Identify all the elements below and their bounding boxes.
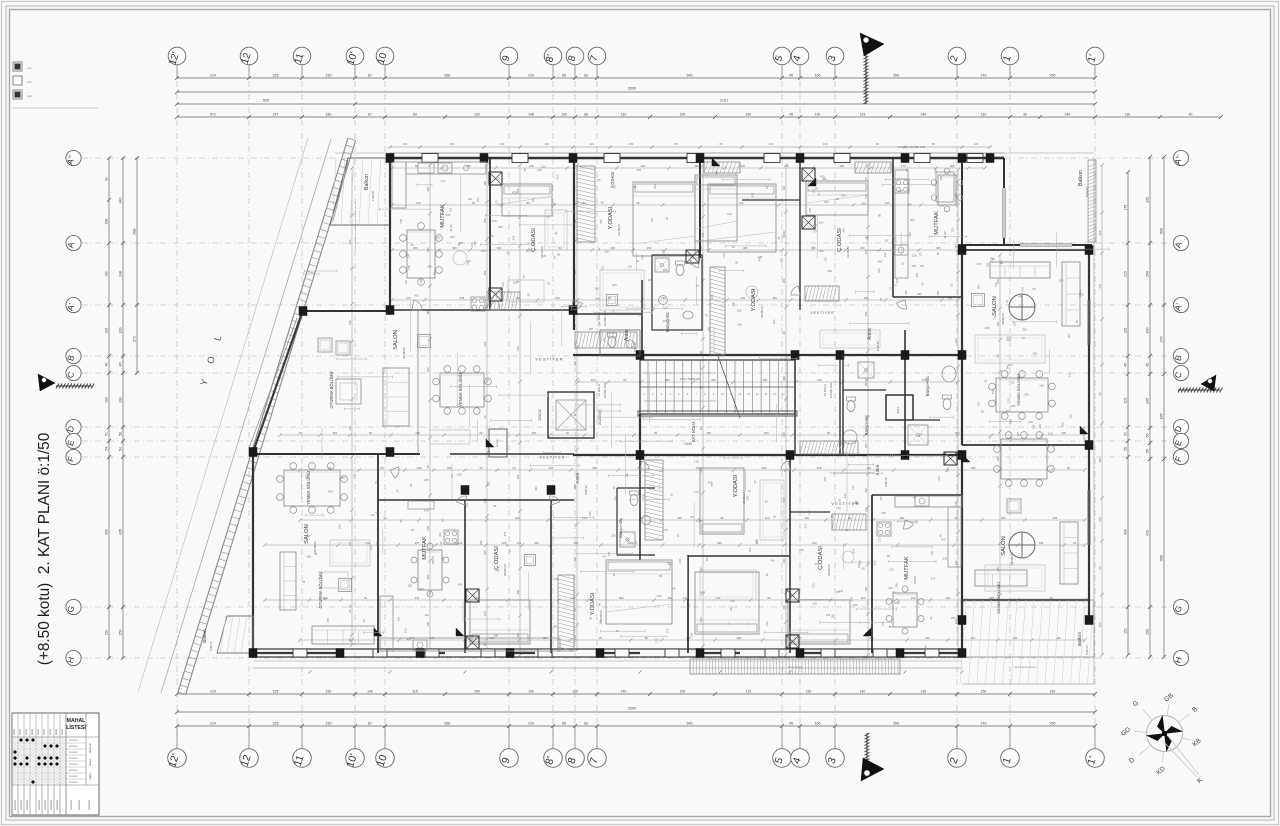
svg-text:SALON: SALON (992, 296, 998, 316)
svg-text:DAİRE GİR.: DAİRE GİR. (602, 310, 607, 326)
svg-text:130: 130 (544, 142, 549, 146)
svg-text:205: 205 (483, 550, 487, 555)
svg-text:425: 425 (898, 189, 903, 193)
svg-text:150: 150 (799, 548, 804, 552)
svg-text:180: 180 (1039, 541, 1044, 545)
svg-text:17x17.54/28.(25): 17x17.54/28.(25) (679, 377, 700, 381)
svg-text:90: 90 (721, 516, 725, 520)
svg-text:140: 140 (1039, 384, 1044, 388)
svg-text:150: 150 (762, 378, 767, 382)
svg-text:mmm: mmm (61, 729, 64, 735)
svg-text:90: 90 (105, 177, 109, 181)
svg-text:7.80 m²: 7.80 m² (633, 342, 637, 352)
svg-text:mmm: mmm (37, 729, 40, 735)
svg-text:230: 230 (407, 265, 411, 270)
svg-text:130: 130 (464, 502, 468, 507)
svg-text:65: 65 (879, 297, 883, 301)
svg-text:60: 60 (1189, 113, 1193, 117)
svg-text:270: 270 (406, 296, 411, 300)
svg-text:425: 425 (750, 192, 754, 197)
svg-text:25: 25 (636, 201, 640, 205)
svg-text:Y.ODASI: Y.ODASI (733, 474, 739, 497)
svg-text:duvar: duvar (88, 758, 92, 765)
svg-text:430: 430 (954, 560, 958, 565)
svg-text:Y.ODASI: Y.ODASI (751, 288, 757, 311)
svg-text:40: 40 (411, 243, 415, 247)
svg-text:430: 430 (711, 378, 716, 382)
svg-text:18.80 m²: 18.80 m² (1001, 313, 1005, 325)
svg-text:190: 190 (1011, 404, 1016, 408)
svg-text:45: 45 (119, 363, 123, 367)
svg-text:490: 490 (714, 170, 718, 175)
svg-text:460: 460 (419, 587, 424, 591)
svg-text:330: 330 (864, 488, 868, 493)
svg-text:13.78 m²: 13.78 m² (617, 224, 621, 236)
svg-text:mm: mm (27, 66, 32, 70)
svg-text:230: 230 (860, 246, 865, 250)
svg-text:405: 405 (1067, 333, 1071, 338)
svg-text:140: 140 (621, 690, 627, 694)
svg-text:460: 460 (652, 306, 656, 311)
svg-text:97: 97 (506, 543, 510, 547)
svg-text:460: 460 (910, 218, 915, 222)
svg-text:300: 300 (447, 466, 452, 470)
svg-text:180: 180 (483, 181, 487, 186)
svg-text:250: 250 (864, 443, 868, 448)
svg-text:160: 160 (819, 220, 824, 224)
svg-text:55: 55 (1146, 449, 1150, 453)
svg-text:150: 150 (629, 142, 634, 146)
svg-text:405: 405 (1033, 351, 1038, 355)
svg-text:205: 205 (941, 537, 946, 541)
svg-text:270: 270 (499, 183, 503, 188)
svg-text:85: 85 (493, 504, 497, 508)
svg-text:149: 149 (981, 722, 987, 726)
svg-text:425: 425 (414, 293, 419, 297)
svg-text:50: 50 (845, 528, 849, 532)
svg-text:mmm: mmm (19, 729, 22, 735)
svg-text:65: 65 (691, 515, 695, 519)
svg-text:150: 150 (804, 516, 809, 520)
svg-text:340: 340 (119, 198, 123, 204)
svg-text:405: 405 (861, 596, 866, 600)
svg-text:85: 85 (409, 483, 413, 487)
svg-text:40: 40 (603, 555, 607, 559)
svg-text:425: 425 (1008, 363, 1013, 367)
svg-text:435: 435 (424, 478, 429, 482)
svg-text:425: 425 (1081, 426, 1086, 430)
svg-text:460: 460 (1001, 516, 1006, 520)
svg-text:272: 272 (133, 336, 137, 342)
svg-text:Balkon: Balkon (1078, 170, 1084, 186)
svg-text:90: 90 (512, 466, 516, 470)
svg-text:270: 270 (1098, 517, 1102, 522)
svg-text:205: 205 (737, 636, 742, 640)
svg-text:270: 270 (889, 286, 894, 290)
svg-text:65: 65 (612, 486, 616, 490)
svg-text:435: 435 (985, 326, 990, 330)
svg-text:mmmmm: mmmmm (88, 800, 91, 810)
svg-text:205: 205 (653, 184, 657, 189)
svg-text:460: 460 (531, 240, 535, 245)
svg-text:120: 120 (974, 142, 979, 146)
svg-text:230: 230 (781, 235, 786, 239)
svg-text:40: 40 (929, 616, 933, 620)
svg-text:173: 173 (494, 200, 498, 205)
svg-text:350: 350 (748, 547, 752, 552)
svg-text:50: 50 (687, 604, 691, 608)
svg-text:50: 50 (527, 293, 531, 297)
svg-text:130: 130 (812, 541, 817, 545)
svg-text:DAİRE GİR.: DAİRE GİR. (602, 382, 607, 398)
svg-text:mmmmm: mmmmm (78, 800, 81, 810)
svg-text:25: 25 (1098, 566, 1102, 570)
svg-text:173: 173 (931, 577, 936, 581)
svg-text:DUMAN: DUMAN (496, 439, 499, 447)
svg-text:149: 149 (981, 74, 987, 78)
svg-text:63: 63 (584, 74, 588, 78)
svg-text:65: 65 (675, 142, 678, 146)
svg-text:40: 40 (362, 619, 366, 623)
svg-text:330: 330 (534, 541, 539, 545)
svg-text:290: 290 (864, 507, 868, 512)
svg-text:5.55 m²: 5.55 m² (209, 641, 213, 651)
svg-text:250: 250 (864, 311, 868, 316)
svg-text:173: 173 (919, 252, 923, 257)
svg-text:SALON: SALON (393, 330, 399, 350)
svg-text:572: 572 (210, 113, 216, 117)
svg-text:250: 250 (1146, 271, 1150, 277)
svg-text:250: 250 (326, 618, 330, 623)
svg-text:130: 130 (403, 142, 408, 146)
svg-text:25: 25 (396, 489, 400, 493)
svg-text:205: 205 (426, 186, 430, 191)
svg-text:320: 320 (689, 260, 693, 265)
svg-text:100: 100 (119, 328, 123, 334)
svg-text:25: 25 (669, 493, 673, 497)
svg-text:130: 130 (782, 432, 786, 437)
svg-text:120: 120 (426, 621, 430, 626)
svg-text:110: 110 (879, 496, 883, 501)
svg-text:130: 130 (782, 558, 786, 563)
svg-text:97: 97 (665, 216, 669, 220)
svg-text:25: 25 (753, 480, 757, 484)
svg-text:230: 230 (729, 606, 733, 611)
svg-text:290: 290 (1024, 392, 1029, 396)
svg-text:50: 50 (1146, 434, 1150, 438)
svg-text:25: 25 (459, 541, 463, 545)
svg-text:14.55 m²: 14.55 m² (760, 306, 764, 318)
svg-text:80: 80 (557, 253, 561, 257)
svg-text:V E S T İ Y E R: V E S T İ Y E R (540, 455, 565, 460)
svg-text:250: 250 (977, 401, 981, 406)
svg-text:25: 25 (472, 201, 476, 205)
svg-text:320: 320 (554, 577, 559, 581)
svg-text:25: 25 (984, 379, 988, 383)
svg-text:250: 250 (483, 218, 487, 223)
svg-text:153: 153 (273, 722, 279, 726)
svg-text:60: 60 (988, 435, 992, 439)
svg-text:173: 173 (694, 490, 699, 494)
svg-text:50: 50 (119, 432, 123, 436)
svg-text:mmmmm: mmmmm (20, 800, 23, 810)
svg-text:230: 230 (930, 550, 934, 555)
svg-text:405: 405 (743, 246, 748, 250)
svg-text:350: 350 (986, 262, 990, 267)
svg-text:435: 435 (1021, 286, 1025, 291)
svg-text:290: 290 (494, 633, 499, 637)
svg-text:85: 85 (342, 476, 346, 480)
svg-text:130: 130 (769, 142, 774, 146)
svg-text:490: 490 (772, 319, 776, 324)
svg-text:Y.ODASI: Y.ODASI (590, 592, 596, 615)
svg-text:250: 250 (408, 584, 413, 588)
svg-text:90: 90 (558, 246, 562, 250)
svg-text:120: 120 (815, 562, 820, 566)
svg-text:150: 150 (488, 167, 492, 172)
svg-text:40: 40 (554, 231, 558, 235)
svg-text:166: 166 (815, 722, 821, 726)
svg-text:110: 110 (981, 113, 987, 117)
svg-text:270: 270 (415, 596, 420, 600)
svg-text:250: 250 (483, 270, 487, 275)
svg-text:160: 160 (864, 586, 868, 591)
svg-text:190: 190 (337, 524, 341, 529)
svg-text:25: 25 (1073, 541, 1077, 545)
svg-text:66: 66 (562, 722, 566, 726)
svg-text:mmm: mmm (43, 729, 46, 735)
svg-text:Y.ODASI: Y.ODASI (608, 206, 614, 229)
svg-text:120: 120 (1028, 420, 1033, 424)
svg-text:85: 85 (348, 638, 352, 642)
svg-text:150: 150 (105, 630, 109, 636)
svg-text:mmm: mmm (31, 729, 34, 735)
svg-text:120: 120 (866, 600, 870, 605)
svg-text:80: 80 (878, 214, 882, 218)
svg-text:60: 60 (827, 431, 831, 435)
svg-text:50: 50 (1011, 380, 1015, 384)
svg-text:10 m²: 10 m² (431, 556, 435, 564)
svg-text:435: 435 (105, 529, 109, 535)
svg-text:97: 97 (1005, 299, 1009, 303)
svg-text:250: 250 (1050, 722, 1056, 726)
svg-text:214: 214 (210, 722, 216, 726)
svg-text:110: 110 (727, 212, 732, 216)
svg-text:65: 65 (496, 569, 500, 573)
svg-text:173: 173 (722, 253, 726, 258)
svg-text:65: 65 (901, 262, 905, 266)
svg-text:110: 110 (424, 613, 429, 617)
svg-text:110: 110 (950, 282, 954, 287)
svg-text:150: 150 (572, 690, 578, 694)
svg-text:130: 130 (486, 481, 490, 486)
svg-text:120: 120 (548, 466, 553, 470)
svg-text:120: 120 (970, 636, 975, 640)
svg-text:65: 65 (552, 255, 556, 259)
svg-text:230: 230 (450, 235, 455, 239)
svg-text:190: 190 (454, 542, 459, 546)
svg-text:Banyo+Wc: Banyo+Wc (864, 415, 869, 435)
svg-text:150: 150 (582, 516, 587, 520)
svg-text:80: 80 (441, 518, 445, 522)
svg-text:433: 433 (1124, 529, 1128, 535)
svg-text:250: 250 (745, 495, 749, 500)
svg-text:asma germe: asma germe (788, 665, 803, 669)
svg-text:40: 40 (566, 431, 570, 435)
svg-text:205: 205 (483, 341, 487, 346)
svg-text:130: 130 (416, 201, 421, 205)
svg-text:190: 190 (1050, 690, 1056, 694)
svg-text:190: 190 (492, 219, 497, 223)
svg-text:60: 60 (598, 323, 602, 327)
svg-text:OTURMA BÖLÜMÜ: OTURMA BÖLÜMÜ (318, 572, 323, 609)
svg-text:130: 130 (573, 607, 577, 612)
svg-text:330: 330 (426, 247, 430, 252)
svg-text:150: 150 (326, 722, 332, 726)
svg-text:110: 110 (370, 513, 375, 517)
svg-text:130: 130 (369, 545, 373, 550)
svg-text:290: 290 (854, 501, 859, 505)
svg-text:97: 97 (905, 168, 909, 172)
svg-text:300: 300 (665, 378, 670, 382)
svg-text:425: 425 (375, 511, 380, 515)
svg-text:248: 248 (119, 271, 123, 277)
svg-text:YEMEK BÖLÜMÜ: YEMEK BÖLÜMÜ (1016, 374, 1021, 406)
svg-text:85: 85 (627, 541, 631, 545)
svg-text:430: 430 (694, 164, 699, 168)
svg-text:193: 193 (119, 397, 123, 403)
svg-text:mmmm: mmmm (69, 775, 78, 778)
svg-text:10.93 m²: 10.93 m² (827, 564, 831, 576)
svg-text:5.60 m²: 5.60 m² (1085, 645, 1089, 655)
svg-text:140: 140 (936, 290, 940, 295)
svg-text:320: 320 (513, 281, 518, 285)
svg-text:13.15 m²: 13.15 m² (846, 246, 850, 258)
svg-text:120: 120 (1098, 622, 1102, 627)
svg-text:120: 120 (1031, 424, 1035, 429)
svg-text:50: 50 (696, 284, 700, 288)
svg-text:30: 30 (1023, 113, 1027, 117)
svg-text:110: 110 (888, 586, 893, 590)
svg-text:mm: mm (27, 94, 32, 98)
svg-text:120: 120 (954, 244, 958, 249)
svg-text:405: 405 (866, 235, 870, 240)
svg-text:180: 180 (348, 320, 352, 325)
svg-text:YEMEK BÖLÜMÜ: YEMEK BÖLÜMÜ (996, 582, 1001, 614)
svg-text:435: 435 (642, 493, 646, 498)
svg-text:173: 173 (994, 282, 998, 287)
svg-text:90: 90 (433, 272, 437, 276)
svg-text:85: 85 (765, 573, 769, 577)
svg-text:60: 60 (597, 247, 601, 251)
svg-text:10 NOLU: 10 NOLU (823, 384, 827, 397)
svg-text:döşeme: döşeme (88, 743, 92, 753)
svg-text:335: 335 (1146, 197, 1150, 203)
svg-text:85: 85 (523, 168, 527, 172)
svg-text:MUTFAK: MUTFAK (934, 211, 940, 235)
svg-text:270: 270 (996, 566, 1000, 571)
svg-text:KAT HOLÜ: KAT HOLÜ (691, 422, 696, 443)
svg-text:130: 130 (836, 506, 841, 510)
svg-text:205: 205 (1124, 398, 1128, 404)
svg-text:130: 130 (840, 164, 845, 168)
svg-text:40: 40 (913, 496, 917, 500)
svg-text:330: 330 (740, 164, 745, 168)
svg-text:173: 173 (638, 313, 643, 317)
svg-text:590: 590 (1160, 228, 1164, 234)
svg-text:270: 270 (1160, 337, 1164, 343)
svg-text:120: 120 (426, 367, 430, 372)
svg-text:250: 250 (667, 562, 672, 566)
svg-text:160: 160 (1069, 414, 1073, 419)
svg-text:110: 110 (699, 468, 703, 473)
svg-text:85: 85 (837, 590, 841, 594)
svg-text:230: 230 (529, 164, 534, 168)
svg-text:10 m²: 10 m² (913, 576, 917, 584)
svg-text:40: 40 (782, 331, 786, 335)
svg-text:150: 150 (806, 690, 812, 694)
svg-text:205: 205 (348, 239, 352, 244)
svg-text:150: 150 (403, 628, 407, 633)
svg-text:460: 460 (907, 202, 912, 206)
svg-text:65: 65 (457, 243, 461, 247)
svg-text:405: 405 (1098, 458, 1102, 463)
svg-text:330: 330 (864, 193, 868, 198)
svg-text:MUTFAK: MUTFAK (904, 556, 910, 580)
svg-text:18.60 m²: 18.60 m² (1010, 553, 1014, 565)
svg-text:mmmm: mmmm (69, 739, 78, 742)
svg-text:460: 460 (842, 227, 846, 232)
svg-text:80: 80 (1032, 287, 1036, 291)
svg-text:230: 230 (1048, 431, 1053, 435)
svg-text:60: 60 (547, 282, 551, 286)
svg-text:25: 25 (676, 534, 680, 538)
svg-text:MAHAL: MAHAL (67, 718, 87, 724)
svg-text:25: 25 (765, 186, 769, 190)
svg-text:430: 430 (573, 557, 577, 562)
svg-text:430: 430 (1061, 431, 1066, 435)
svg-text:130: 130 (305, 534, 310, 538)
svg-text:60: 60 (1006, 409, 1010, 413)
svg-text:85: 85 (573, 413, 577, 417)
svg-text:9 NOLU DAİRE GİR.: 9 NOLU DAİRE GİR. (898, 144, 926, 149)
svg-text:129: 129 (528, 74, 534, 78)
svg-text:230: 230 (399, 218, 403, 223)
svg-text:150: 150 (450, 142, 455, 146)
svg-text:mmm: mmm (25, 729, 28, 735)
svg-text:120: 120 (817, 378, 822, 382)
svg-text:150: 150 (440, 209, 444, 214)
svg-text:110: 110 (323, 597, 328, 601)
svg-text:65: 65 (375, 480, 379, 484)
svg-text:DAİRE GİR.: DAİRE GİR. (828, 382, 833, 398)
svg-text:250: 250 (1013, 636, 1018, 640)
svg-text:65: 65 (399, 519, 403, 523)
svg-text:90: 90 (732, 245, 736, 249)
svg-text:50: 50 (375, 542, 379, 546)
svg-text:130: 130 (474, 113, 480, 117)
svg-text:Balkon: Balkon (364, 174, 370, 190)
svg-text:25: 25 (543, 254, 547, 258)
svg-text:80: 80 (597, 602, 601, 606)
svg-text:160: 160 (831, 614, 835, 619)
svg-text:ŞAFT: ŞAFT (896, 406, 900, 413)
svg-text:425: 425 (657, 594, 662, 598)
svg-text:270: 270 (804, 523, 808, 528)
svg-text:150: 150 (894, 583, 898, 588)
svg-text:85: 85 (380, 466, 384, 470)
svg-text:+8.50: +8.50 (684, 442, 692, 446)
